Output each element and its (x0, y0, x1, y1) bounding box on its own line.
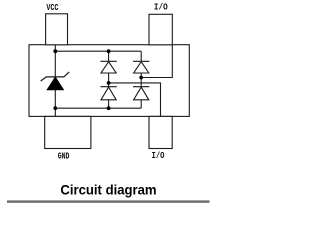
svg-text:VCC: VCC (46, 3, 59, 13)
svg-text:Circuit diagram: Circuit diagram (60, 181, 156, 197)
svg-text:I/O: I/O (154, 3, 168, 13)
svg-text:I/O: I/O (152, 151, 165, 161)
svg-text:GND: GND (58, 152, 70, 162)
